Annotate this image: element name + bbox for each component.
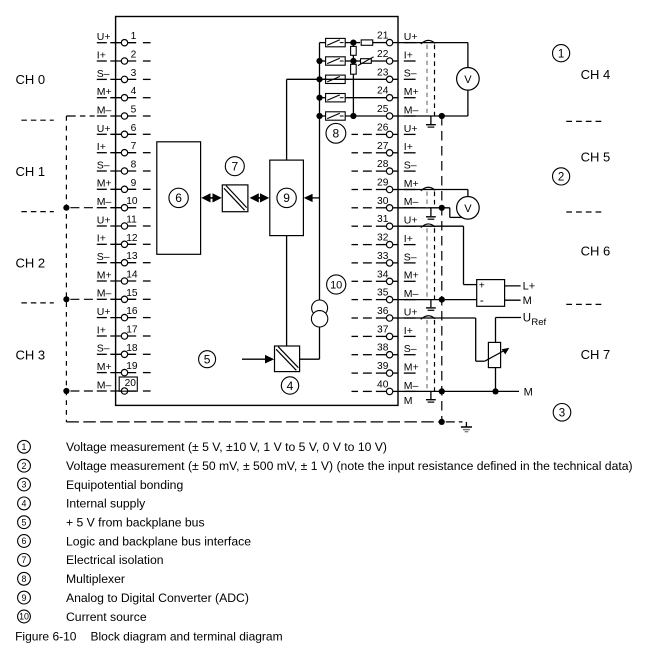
- label circled 3 equipotential bonding: [553, 404, 571, 422]
- wire U+ terminal 31 to load plus: [398, 225, 464, 227]
- svg-text:5: 5: [131, 105, 137, 116]
- svg-text:6: 6: [131, 123, 137, 134]
- svg-text:4: 4: [287, 379, 294, 393]
- label circled 9: [277, 188, 296, 207]
- wire L+ output: [505, 285, 521, 287]
- svg-text:Analog to Digital Converter (A: Analog to Digital Converter (ADC): [66, 591, 249, 605]
- svg-text:M–: M–: [404, 104, 419, 116]
- svg-text:7: 7: [22, 555, 27, 565]
- terminal 11 (U+), left column: [97, 214, 151, 229]
- terminal 8 (S–), left column: [97, 159, 151, 174]
- svg-text:L+: L+: [523, 281, 536, 293]
- junction dot on bottom rail: [439, 419, 445, 425]
- svg-text:8: 8: [22, 574, 27, 584]
- svg-text:34: 34: [377, 269, 389, 280]
- svg-text:M+: M+: [404, 86, 419, 98]
- dashed channel separator left at y=302: [21, 302, 53, 304]
- wire U+ terminal 21 to voltmeter top: [398, 42, 468, 44]
- svg-text:Voltage measurement (± 5 V, ±1: Voltage measurement (± 5 V, ±10 V, 1 V t…: [66, 440, 387, 454]
- svg-text:CH 7: CH 7: [581, 347, 611, 362]
- svg-text:37: 37: [377, 324, 389, 335]
- svg-text:S–: S–: [404, 343, 417, 355]
- svg-text:5: 5: [22, 517, 27, 527]
- dashed bottom rail to equipotential bonding: [66, 421, 441, 423]
- svg-text:24: 24: [377, 86, 389, 97]
- mux switch S2 (row of terminal 22): [320, 57, 346, 65]
- svg-text:S–: S–: [97, 343, 110, 355]
- junction dot M- 30: [439, 205, 445, 211]
- svg-text:35: 35: [377, 288, 389, 299]
- terminal 25 (M–), right column: [377, 104, 418, 119]
- block U9 analog-to-digital converter: [270, 160, 304, 236]
- svg-text:25: 25: [377, 104, 389, 115]
- terminal 1 (U+), left column: [97, 31, 151, 46]
- svg-text:8: 8: [333, 127, 340, 141]
- terminal 30 (M–), right column: [352, 196, 419, 211]
- svg-text:26: 26: [377, 122, 389, 133]
- resistor R1 (vertical, between rows 21-22): [351, 46, 357, 55]
- svg-text:M–: M–: [404, 288, 419, 300]
- wire M+ terminal 29 to voltmeter top: [398, 189, 468, 191]
- svg-text:I+: I+: [404, 49, 413, 61]
- svg-text:U+: U+: [404, 306, 418, 318]
- current source symbol (two overlapping circles) in mux rail: [312, 300, 328, 316]
- svg-text:CH 6: CH 6: [581, 244, 611, 259]
- svg-text:2: 2: [131, 50, 137, 61]
- junction dot rheostat / M line: [492, 388, 498, 394]
- svg-text:5: 5: [204, 353, 211, 367]
- svg-text:10: 10: [19, 612, 29, 622]
- svg-text:U+: U+: [97, 31, 111, 43]
- svg-text:33: 33: [377, 251, 389, 262]
- rheostat wiper arrow: [485, 351, 504, 362]
- svg-text:M+: M+: [404, 270, 419, 282]
- svg-text:M+: M+: [404, 178, 419, 190]
- dashed channel separator right y=304: [566, 303, 601, 305]
- svg-text:CH 0: CH 0: [16, 72, 46, 87]
- wire ADC bottom to block 4 top: [286, 236, 288, 346]
- svg-text:S–: S–: [97, 68, 110, 80]
- label circled 6: [169, 188, 188, 207]
- svg-text:I+: I+: [97, 324, 106, 336]
- wire row24 switch to terminal: [345, 97, 386, 99]
- terminal 20 (M–), left column: [97, 378, 151, 394]
- svg-text:1: 1: [131, 31, 137, 42]
- terminal 5 (M–), left column: [97, 104, 151, 119]
- label circled 2 voltage measurement mV: [553, 168, 570, 185]
- svg-text:M+: M+: [404, 362, 419, 374]
- svg-text:U+: U+: [404, 31, 418, 43]
- label circled 8 multiplexer: [326, 123, 346, 143]
- terminal 34 (M+), right column: [352, 269, 419, 284]
- terminal 6 (U+), left column: [97, 123, 151, 138]
- svg-text:1: 1: [22, 442, 27, 452]
- wire: dashed link from terminal 5 M- to bus corner: [70, 115, 94, 117]
- svg-text:M–: M–: [97, 379, 112, 391]
- svg-text:Equipotential bonding: Equipotential bonding: [66, 478, 183, 492]
- svg-text:CH 4: CH 4: [581, 67, 611, 82]
- wire voltmeter bottom to M- terminal 25 line: [467, 90, 469, 116]
- svg-text:M–: M–: [97, 288, 112, 300]
- cable shield entry arc CH6: [421, 224, 435, 228]
- terminal 32 (I+), right column: [352, 233, 416, 248]
- mux switch S3 (row of terminal 23): [320, 75, 346, 83]
- junction dot + dashed link, terminal 20 M-: [63, 388, 69, 394]
- svg-text:11: 11: [126, 215, 137, 226]
- terminal 29 (M+), right column: [352, 178, 419, 193]
- svg-text:16: 16: [126, 306, 138, 317]
- svg-text:2: 2: [558, 172, 564, 184]
- svg-text:4: 4: [22, 499, 27, 509]
- mux switch S1 (row of terminal 21): [320, 38, 346, 46]
- shield ground CH6: [430, 300, 432, 308]
- terminal 4 (M+), left column: [97, 86, 151, 101]
- load block (2-wire transducer supply): [477, 280, 505, 307]
- svg-text:4: 4: [131, 86, 137, 97]
- svg-text:39: 39: [377, 361, 389, 372]
- terminal 24 (M+), right column: [377, 86, 419, 101]
- legend row 8: [18, 572, 31, 585]
- svg-text:CH 3: CH 3: [16, 347, 46, 362]
- legend row 5: [18, 516, 31, 529]
- svg-text:M–: M–: [404, 380, 419, 392]
- svg-text:M+: M+: [97, 269, 112, 281]
- svg-text:9: 9: [22, 593, 27, 603]
- fuse F1 (row 22): [361, 59, 372, 64]
- terminal 10 (M–), left column: [97, 196, 151, 211]
- svg-text:31: 31: [377, 214, 389, 225]
- shield ground CH7: [430, 391, 432, 399]
- wire row25 switch to terminal: [345, 115, 386, 117]
- bus arrow between blocks 7 and 9 (bidirectional): [250, 193, 259, 202]
- resistor R3 (series, row 21): [361, 40, 373, 45]
- svg-text:M–: M–: [97, 196, 112, 208]
- cable shield dashed pair CH4: [426, 45, 428, 116]
- shield ground CH5: [430, 208, 432, 216]
- earth ground symbol at bottom rail: [465, 422, 467, 427]
- equipotential bonding line (long-dash vertical): [441, 116, 443, 422]
- svg-text:M: M: [524, 386, 533, 398]
- legend row 4: [18, 497, 31, 510]
- svg-text:V: V: [464, 74, 472, 86]
- svg-text:18: 18: [126, 343, 138, 354]
- svg-text:7: 7: [231, 160, 238, 174]
- svg-text:S–: S–: [404, 160, 417, 172]
- svg-text:17: 17: [126, 325, 138, 336]
- svg-text:M+: M+: [97, 361, 112, 373]
- svg-text:Electrical isolation: Electrical isolation: [66, 553, 164, 567]
- svg-text:3: 3: [131, 68, 137, 79]
- svg-text:32: 32: [377, 233, 389, 244]
- terminal 19 (M+), left column: [97, 361, 151, 376]
- bus arrow between blocks 6 and 7 (bidirectional): [201, 193, 210, 202]
- svg-text:Internal supply: Internal supply: [66, 497, 146, 511]
- svg-text:36: 36: [377, 306, 389, 317]
- svg-text:8: 8: [131, 160, 137, 171]
- svg-text:22: 22: [377, 49, 389, 60]
- terminal 28 (S–), right column: [352, 159, 417, 174]
- svg-text:CH 5: CH 5: [581, 150, 611, 165]
- svg-text:I+: I+: [404, 141, 413, 153]
- junction dot + dashed link, terminal 10 M-: [63, 205, 69, 211]
- legend row 7: [18, 554, 31, 567]
- terminal 9 (M+), left column: [97, 178, 151, 193]
- terminal 31 (U+), right column: [352, 214, 418, 229]
- svg-text:M: M: [523, 295, 532, 307]
- cable shield entry arc CH4: [421, 40, 435, 44]
- dashed rail stub to earth: [446, 421, 463, 423]
- svg-text:29: 29: [377, 178, 389, 189]
- svg-text:6: 6: [175, 191, 182, 205]
- svg-text:Figure 6-10: Figure 6-10: [15, 630, 77, 644]
- terminal 26 (U+), right column: [352, 122, 418, 137]
- svg-text:U+: U+: [404, 215, 418, 227]
- dashed channel separator right y=121: [566, 120, 601, 122]
- terminal 15 (M–), left column: [97, 288, 151, 303]
- junction dot on mux rail row 24: [316, 95, 322, 101]
- terminal 13 (S–), left column: [97, 251, 151, 266]
- terminal 2 (I+), left column: [97, 49, 151, 64]
- wire row23 S- through to ADC corner: [287, 78, 387, 80]
- voltmeter V1 (channel 4): [457, 68, 480, 91]
- svg-text:M–: M–: [97, 104, 112, 116]
- svg-text:27: 27: [377, 141, 389, 152]
- svg-text:Logic and backplane bus interf: Logic and backplane bus interface: [66, 534, 251, 548]
- dashed channel separator right y=212: [566, 211, 601, 213]
- svg-text:U+: U+: [404, 123, 418, 135]
- svg-text:I+: I+: [404, 233, 413, 245]
- svg-text:10: 10: [126, 196, 138, 207]
- wire M- terminal 40 line to M label: [398, 390, 519, 392]
- terminal 37 (I+), right column: [352, 324, 416, 339]
- voltmeter V2 (channel 5): [457, 197, 480, 220]
- mux switch S4 (row of terminal 24): [320, 94, 346, 102]
- svg-text:9: 9: [131, 178, 137, 189]
- svg-text:20: 20: [125, 378, 137, 389]
- svg-text:10: 10: [330, 280, 342, 292]
- terminal 35 (M–), right column: [352, 288, 419, 303]
- legend row 2: [18, 459, 31, 472]
- wire M output: [505, 299, 521, 301]
- legend row 6: [18, 535, 31, 548]
- svg-text:Current source: Current source: [66, 610, 147, 624]
- terminal 22 (I+), right column: [377, 49, 416, 64]
- wire row21 with series resistor: [345, 42, 360, 44]
- svg-text:U+: U+: [97, 214, 111, 226]
- svg-text:1: 1: [558, 48, 564, 60]
- svg-text:Block diagram and terminal dia: Block diagram and terminal diagram: [91, 630, 283, 644]
- block U7 electrical isolation (square with double diagonal): [222, 185, 248, 212]
- svg-text:Multiplexer: Multiplexer: [66, 572, 125, 586]
- svg-text:Ref: Ref: [531, 317, 546, 328]
- terminal 36 (U+), right column: [352, 306, 418, 321]
- svg-text:S–: S–: [404, 251, 417, 263]
- svg-text:V: V: [464, 203, 472, 215]
- terminal 18 (S–), left column: [97, 343, 151, 358]
- svg-text:12: 12: [126, 233, 138, 244]
- svg-text:CH 2: CH 2: [16, 256, 46, 271]
- label circled 1 voltage measurement: [553, 45, 570, 62]
- junction dot on mux rail row 25: [316, 113, 322, 119]
- dashed M- bus vertical (equipotential): [65, 116, 67, 422]
- svg-text:S–: S–: [97, 159, 110, 171]
- wire M- terminal 30 to voltmeter bottom (staircase): [398, 207, 450, 209]
- module boundary box (analog input module): [116, 17, 398, 406]
- svg-text:I+: I+: [97, 233, 106, 245]
- svg-text:2: 2: [22, 461, 27, 471]
- dashed channel separator left at y=120: [21, 119, 53, 121]
- dashed channel separator left at y=211: [21, 211, 53, 213]
- svg-text:Voltage measurement (± 50 mV,: Voltage measurement (± 50 mV, ± 500 mV, …: [66, 459, 633, 473]
- junction dot on mux rail row 22: [316, 58, 322, 64]
- svg-text:38: 38: [377, 343, 389, 354]
- resistor R2 (vertical, between rows 22-23): [351, 64, 357, 74]
- cable shield dashed pair CH7: [426, 320, 428, 391]
- label circled 10: [327, 275, 346, 294]
- cable shield dashed pair CH6: [426, 228, 428, 299]
- terminal 17 (I+), left column: [97, 324, 151, 339]
- terminal 14 (M+), left column: [97, 269, 151, 284]
- svg-text:15: 15: [126, 288, 138, 299]
- svg-text:M+: M+: [97, 178, 112, 190]
- svg-text:40: 40: [377, 379, 389, 390]
- terminal 21 (U+), right column: [377, 31, 417, 46]
- svg-text:I+: I+: [97, 49, 106, 61]
- label circled 5: [199, 351, 216, 368]
- svg-text:6: 6: [22, 536, 27, 546]
- terminal 16 (U+), left column: [97, 306, 151, 321]
- svg-text:M: M: [404, 395, 413, 407]
- svg-text:19: 19: [126, 361, 138, 372]
- junction dot M- 35: [439, 297, 445, 303]
- svg-text:+ 5 V from backplane bus: + 5 V from backplane bus: [66, 516, 205, 530]
- terminal 33 (S–), right column: [352, 251, 417, 266]
- legend row 10: [18, 610, 31, 623]
- svg-text:7: 7: [131, 141, 137, 152]
- svg-text:13: 13: [126, 251, 138, 262]
- terminal 3 (S–), left column: [97, 68, 151, 83]
- junction dot M- 40 / equipotential: [439, 388, 445, 394]
- svg-text:I+: I+: [97, 141, 106, 153]
- arrow from mux rail into ADC right side: [312, 197, 320, 199]
- svg-text:M+: M+: [97, 86, 112, 98]
- svg-text:23: 23: [377, 67, 389, 78]
- svg-text:S–: S–: [97, 251, 110, 263]
- mux switch S5 (row of terminal 25): [320, 112, 346, 120]
- wire rheostat bottom to M line: [495, 368, 497, 392]
- terminal 7 (I+), left column: [97, 141, 151, 156]
- wire S- sense line down to ADC top: [286, 79, 288, 160]
- svg-text:14: 14: [126, 270, 138, 281]
- terminal 39 (M+), right column: [352, 361, 419, 376]
- wire row22 with fuse: [345, 60, 360, 62]
- svg-text:28: 28: [377, 159, 389, 170]
- svg-text:21: 21: [377, 31, 389, 42]
- wire mux rail below current source into block 4: [319, 327, 321, 359]
- block U6 logic and backplane bus interface: [157, 142, 201, 255]
- cable shield entry arc CH5: [421, 187, 435, 191]
- wire U+ terminal 36 to rheostat wiper: [398, 317, 476, 319]
- svg-text:3: 3: [559, 407, 565, 419]
- wire M- terminal 35 to load minus: [398, 299, 477, 301]
- wire rheostat top to URef: [495, 318, 497, 343]
- terminal 27 (I+), right column: [352, 141, 416, 156]
- junction dot M- 25 / equipotential line: [439, 113, 445, 119]
- legend row 3: [18, 478, 31, 491]
- legend row 1: [18, 440, 31, 453]
- terminal 38 (S–), right column: [352, 343, 417, 358]
- legend row 9: [18, 591, 31, 604]
- svg-text:+: +: [479, 280, 485, 291]
- svg-text:30: 30: [377, 196, 389, 207]
- arrow +5V from backplane bus into block 4: [242, 358, 267, 360]
- svg-text:9: 9: [283, 191, 290, 205]
- rheostat (adjustable resistor): [488, 342, 500, 367]
- label circled 7: [225, 157, 244, 176]
- label circled 4: [281, 377, 298, 394]
- block U4 internal supply (square with double diagonal): [275, 346, 300, 372]
- svg-text:U+: U+: [97, 306, 111, 318]
- svg-text:S–: S–: [404, 68, 417, 80]
- svg-text:I+: I+: [404, 325, 413, 337]
- junction dot on mux rail row 23: [316, 76, 322, 82]
- svg-text:M–: M–: [404, 196, 419, 208]
- svg-text:3: 3: [22, 480, 27, 490]
- svg-text:U: U: [523, 313, 531, 325]
- mux output rail (left) vertical: [319, 43, 321, 300]
- terminal 12 (I+), left column: [97, 233, 151, 248]
- box highlighting terminal number 20: [119, 377, 137, 391]
- terminal 23 (S–), right column: [377, 67, 417, 82]
- svg-text:-: -: [480, 295, 484, 307]
- svg-text:CH 1: CH 1: [16, 164, 46, 179]
- shield ground CH4: [430, 116, 432, 124]
- resistor divider rail (right) with junction dots: [352, 43, 354, 47]
- cable shield entry arc CH7: [421, 316, 435, 320]
- cable shield dashed pair CH5: [426, 192, 428, 208]
- svg-text:U+: U+: [97, 123, 111, 135]
- junction dot + dashed link, terminal 15 M-: [63, 296, 69, 302]
- terminal 40 (M–), right column: [352, 379, 419, 394]
